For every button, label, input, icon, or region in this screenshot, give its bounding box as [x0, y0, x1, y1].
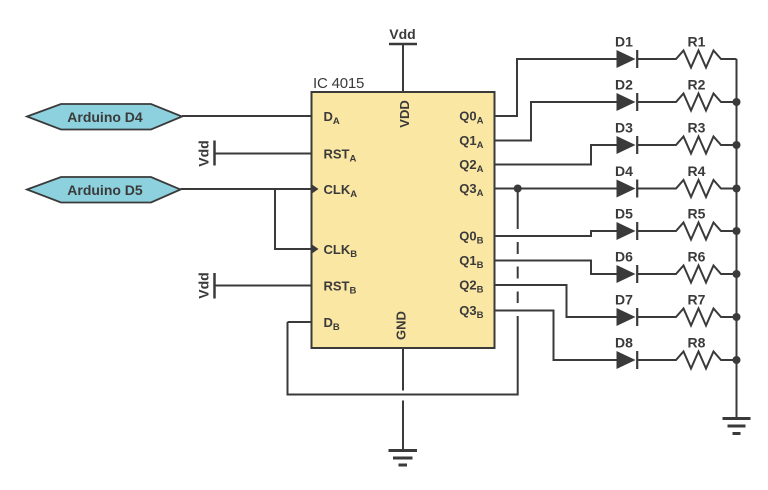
svg-text:D2: D2 — [615, 76, 633, 92]
svg-text:R6: R6 — [688, 248, 706, 264]
svg-text:D4: D4 — [615, 163, 633, 179]
svg-text:D1: D1 — [615, 33, 633, 49]
svg-text:IC 4015: IC 4015 — [313, 75, 364, 92]
svg-text:Vdd: Vdd — [389, 26, 415, 42]
svg-text:Vdd: Vdd — [196, 272, 212, 298]
svg-text:D8: D8 — [615, 334, 633, 350]
svg-text:D3: D3 — [615, 119, 633, 135]
svg-text:R4: R4 — [688, 163, 706, 179]
svg-text:R2: R2 — [688, 76, 706, 92]
svg-text:GND: GND — [394, 311, 409, 340]
svg-text:R7: R7 — [688, 291, 706, 307]
svg-text:R3: R3 — [688, 119, 706, 135]
svg-text:Arduino D5: Arduino D5 — [67, 182, 143, 198]
svg-text:D6: D6 — [615, 248, 633, 264]
svg-text:R8: R8 — [688, 334, 706, 350]
svg-text:D7: D7 — [615, 291, 633, 307]
svg-text:R1: R1 — [688, 33, 706, 49]
svg-text:R5: R5 — [688, 205, 706, 221]
svg-text:Vdd: Vdd — [196, 140, 212, 166]
svg-text:VDD: VDD — [397, 100, 412, 127]
svg-text:D5: D5 — [615, 205, 633, 221]
svg-text:Arduino D4: Arduino D4 — [67, 109, 143, 125]
